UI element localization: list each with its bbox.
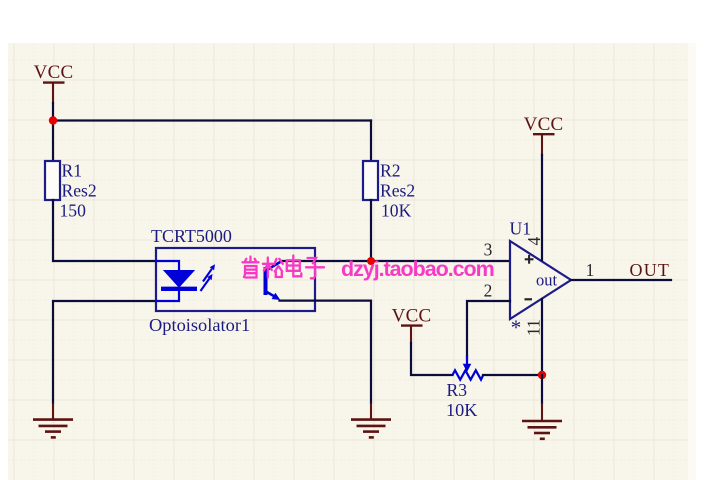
svg-text:dzyj.taobao.com: dzyj.taobao.com — [341, 257, 494, 281]
wire opamp output — [571, 279, 671, 281]
svg-text:U1: U1 — [510, 219, 532, 239]
power VCC (left) — [34, 62, 74, 104]
wire R3 to node — [483, 374, 542, 376]
svg-text:*: * — [511, 316, 522, 340]
wire rail down to R2 — [370, 121, 372, 162]
svg-text:R1: R1 — [62, 161, 83, 181]
svg-text:VCC: VCC — [392, 305, 432, 326]
svg-text:11: 11 — [524, 319, 544, 336]
svg-text:VCC: VCC — [524, 114, 564, 135]
svg-text:10K: 10K — [446, 400, 477, 420]
wire VCC to R3 left — [411, 343, 453, 375]
svg-text:Res2: Res2 — [380, 181, 415, 201]
power VCC (R3) — [392, 305, 432, 344]
wire pin11 to node — [541, 299, 543, 375]
junction VCC rail — [49, 116, 57, 124]
svg-text:10K: 10K — [381, 200, 412, 220]
power VCC (opamp) — [524, 114, 564, 156]
svg-text:1: 1 — [586, 260, 595, 280]
wire R2 to collector node — [370, 200, 372, 261]
svg-text:OUT: OUT — [630, 260, 671, 280]
svg-text:Optoisolator1: Optoisolator1 — [149, 315, 250, 335]
ground GND2 — [351, 403, 391, 437]
wire emitter to ground — [280, 301, 372, 403]
junction node collector — [367, 257, 375, 265]
svg-text:TCRT5000: TCRT5000 — [151, 226, 232, 246]
wire R1 to opto anode — [53, 200, 156, 261]
svg-text:150: 150 — [60, 200, 87, 220]
svg-text:R3: R3 — [447, 380, 468, 400]
svg-text:2: 2 — [484, 280, 493, 300]
potentiometer R3 — [446, 355, 483, 420]
wire node to opamp +in — [371, 260, 510, 262]
wire VCC rail to R2 — [53, 119, 371, 121]
svg-text:R2: R2 — [380, 161, 401, 181]
svg-text:VCC: VCC — [34, 62, 74, 83]
svg-text:out: out — [536, 271, 558, 290]
op-amp U1 — [510, 219, 572, 340]
svg-text:Res2: Res2 — [62, 181, 97, 201]
watermark yusong dzyj.taobao.com — [243, 256, 325, 279]
optoisolator Optoisolator1 TCRT5000 — [149, 226, 315, 335]
wire collector to node — [281, 260, 372, 262]
junction R3 node — [538, 371, 546, 379]
ground GND1 — [33, 403, 73, 437]
wire pin2 to R3 wiper — [467, 301, 510, 358]
wire node to ground — [541, 375, 543, 403]
resistor R2 — [363, 161, 415, 221]
resistor R1 — [45, 161, 97, 221]
wire VCC to pin4 — [541, 155, 543, 260]
wire opto cathode to ground — [53, 301, 156, 403]
ground GND3 — [522, 403, 562, 439]
wire VCC to R1 — [52, 103, 54, 161]
